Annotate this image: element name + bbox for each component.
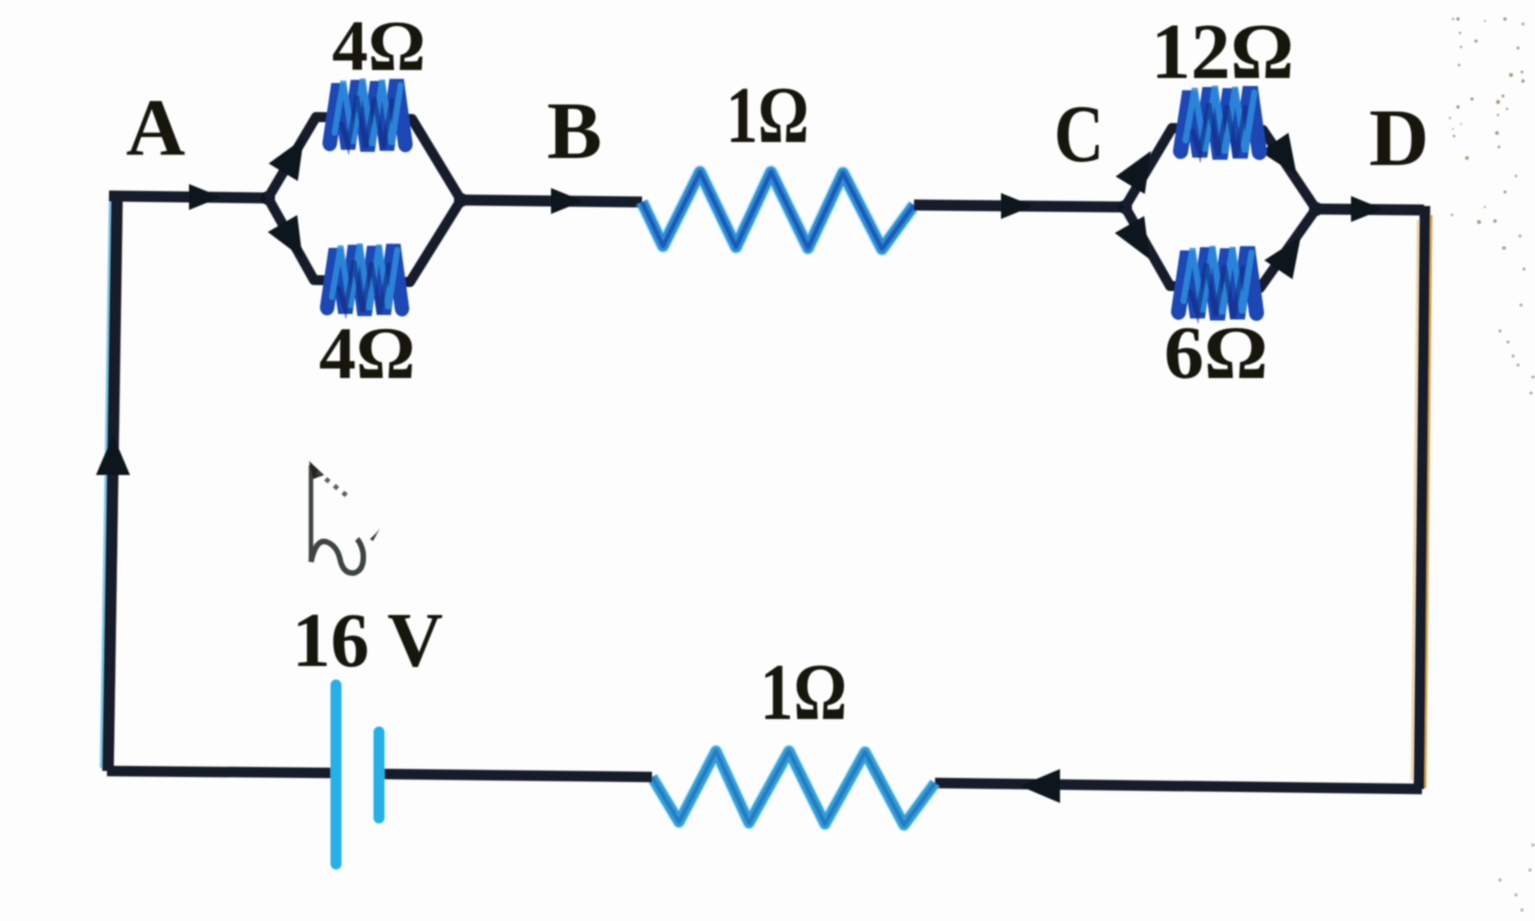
wire: A corner to left junction [109,196,268,198]
wire: B segment (right junction to 1-ohm resistor) [461,200,642,202]
battery 16V: long (positive) plate [331,685,342,864]
wire: bottom right corner to 1-ohm resistor [935,783,1422,789]
resistor 4-ohm bottom branch (blue scribble) [327,244,402,315]
current arrow up on left wire [96,435,130,475]
resistor 1-ohm between B and C (cyan zigzag) [642,172,914,249]
svg-text:16 V: 16 V [292,597,443,683]
current arrow pointing left on bottom wire [1020,769,1060,803]
svg-text:6Ω: 6Ω [1164,312,1268,395]
wire: D segment (right junction to right corner) [1316,209,1424,210]
svg-text:B: B [547,85,602,176]
current arrow on D segment [1351,196,1383,222]
wire: top branch of left parallel loop [268,117,461,200]
current arrow on top-left diagonal of right loop [1116,142,1166,194]
svg-text:D: D [1369,92,1429,183]
svg-text:C: C [1054,88,1104,179]
svg-text:4Ω: 4Ω [319,313,415,395]
wire: top branch of right parallel loop [1125,128,1316,209]
wire: left vertical A to battery [102,202,111,768]
current arrow on bottom-left diagonal [268,215,317,267]
wire: battery negative plate to bottom-left corner [107,771,336,773]
current arrow on B segment [551,188,583,214]
wire: bottom branch of left parallel loop [268,198,461,282]
resistor 4-ohm top branch (blue scribble) [330,79,406,151]
svg-text:4Ω: 4Ω [332,6,426,86]
battery 16V: short (negative) plate [374,732,385,818]
resistor 1-ohm bottom (cyan zigzag) [652,751,935,825]
current arrow A to junction [189,184,221,210]
svg-text:1Ω: 1Ω [726,72,809,160]
scan noise bottom-right corner [1498,843,1534,911]
current arrow on bottom-left diagonal of right loop [1115,216,1164,268]
scan noise top-right corner [1449,17,1535,394]
node: left junction of 4-ohm parallel pair [261,191,275,205]
svg-text:A: A [126,82,185,173]
resistor 6-ohm bottom branch (blue scribble) [1179,246,1257,319]
svg-text:12Ω: 12Ω [1151,9,1294,96]
wire: right vertical D down to bottom [1425,215,1431,788]
current arrow on top-right diagonal of right loop [1260,133,1311,185]
resistor 12-ohm top branch (blue scribble) [1181,86,1260,158]
wire: bottom branch of right parallel loop [1125,207,1316,288]
current arrow on top-left diagonal [269,129,319,181]
node: C junction of 12/6-ohm parallel pair [1118,200,1132,214]
mouse cursor artifact [309,461,380,573]
wire: C segment (1-ohm to right parallel pair) [914,205,1125,207]
wire: 1-ohm resistor to battery positive plate [384,774,652,777]
current arrow on bottom-right diagonal of right loop [1264,227,1315,279]
svg-text:1Ω: 1Ω [760,649,847,737]
current arrow on C segment [1001,193,1033,219]
